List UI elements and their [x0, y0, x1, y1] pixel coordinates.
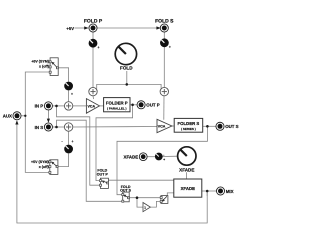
- wire A1b to summer S2: [163, 47, 165, 88]
- svg-text:x (off): x (off): [39, 165, 50, 169]
- arrow IN P normal into IN S: [47, 119, 50, 123]
- wire MIX normal to AUX: [17, 123, 207, 223]
- svg-text:+: +: [169, 45, 171, 49]
- wire IN S tap to FOLD OUT S: [57, 120, 123, 201]
- junction OUT P: [131, 104, 134, 107]
- wire CV bus: [97, 84, 161, 88]
- wire MIX junction down: [206, 191, 208, 196]
- knob FOLD: [115, 43, 136, 70]
- switch SW2 +5V SYM / off: [31, 160, 58, 175]
- summing node S3: [64, 102, 72, 110]
- op-amp buffer: [143, 203, 150, 212]
- wire S1 to VCA1 CV: [92, 96, 95, 99]
- wire buffer to SW3: [150, 201, 161, 207]
- block FOLDER P: [104, 98, 130, 112]
- wire A3 to summer S4: [68, 131, 70, 144]
- svg-text:x (off): x (off): [39, 64, 50, 68]
- svg-text:OUT P: OUT P: [146, 103, 159, 108]
- switch FOLD OUT S: [120, 185, 132, 202]
- jack MIX: [216, 187, 233, 195]
- wire A2 to summer S3: [68, 90, 70, 101]
- wire FOLD P jack to attenuator A1: [92, 32, 94, 39]
- svg-text:OUT S: OUT S: [120, 189, 132, 193]
- summing node S1: [89, 87, 97, 95]
- svg-text:+: +: [71, 92, 73, 96]
- wire SW3 to XFADE block: [167, 193, 174, 196]
- wire VCA1 to FOLDER P: [100, 105, 104, 107]
- block FOLDER S: [174, 118, 203, 132]
- wire +5V to FOLD P: [75, 27, 86, 29]
- attenuator A1b: [160, 38, 171, 49]
- wire A1 to summer S1: [92, 48, 94, 88]
- svg-text:XFADE: XFADE: [179, 168, 194, 173]
- svg-text:OUT P: OUT P: [97, 173, 109, 177]
- junction AUX bus: [24, 115, 26, 117]
- junction FOLD knob / CV bus: [126, 83, 129, 86]
- svg-text:+5V (SYM): +5V (SYM): [31, 160, 49, 164]
- wire FOLDER P to OUT P: [130, 104, 137, 106]
- wire S2 to VCA2 CV: [163, 96, 165, 120]
- svg-text:FOLD P: FOLD P: [84, 19, 103, 25]
- svg-text:IN S: IN S: [35, 125, 44, 130]
- svg-text:+: +: [98, 46, 100, 50]
- wire IN P tap to FOLD OUT P: [57, 106, 101, 185]
- junction OUT S: [206, 125, 209, 128]
- svg-text:MIX: MIX: [226, 189, 234, 194]
- wire IN P to summer S3: [52, 105, 64, 107]
- arrow +5V into FOLD P: [84, 26, 88, 29]
- jack FOLD S: [155, 19, 174, 32]
- wire A4 to XFADE knob: [163, 155, 178, 157]
- jack IN S: [35, 123, 53, 131]
- attenuator A1: [89, 39, 100, 50]
- wire FOLD knob stem: [126, 71, 128, 84]
- wire FOLD OUT P to XFADE block: [108, 179, 173, 181]
- wire AUX to bus: [21, 115, 25, 117]
- wire FOLDER S to OUT S: [203, 125, 216, 127]
- op-amp VCA1: [86, 99, 99, 114]
- summing node S4: [64, 123, 72, 131]
- jack OUT S: [216, 122, 239, 130]
- jack OUT P: [137, 101, 160, 109]
- svg-text:-: -: [163, 153, 164, 157]
- svg-text:( PARALLEL ): ( PARALLEL ): [107, 106, 126, 110]
- arrow into FOLD S: [156, 26, 160, 29]
- svg-text:OUT S: OUT S: [225, 124, 238, 129]
- wire XFADE block to MIX: [202, 190, 217, 192]
- wire S4 to VCA2: [73, 126, 157, 129]
- svg-text:-: -: [62, 140, 63, 144]
- svg-text:IN P: IN P: [35, 104, 44, 109]
- jack IN P: [35, 102, 53, 110]
- block XFADE: [174, 179, 202, 197]
- attenuator A3: [62, 140, 74, 154]
- wire SW2 to attenuator A3: [58, 153, 69, 166]
- jack FOLD P: [84, 19, 103, 32]
- junction MIX: [206, 190, 209, 193]
- svg-text:+: +: [72, 140, 74, 144]
- wire SW1 to attenuator A2: [58, 68, 68, 82]
- switch FOLD OUT P: [97, 169, 109, 189]
- junction IN S: [55, 126, 58, 129]
- wire OUT P tap to FOLD OUT P: [96, 105, 133, 181]
- svg-text:AUX: AUX: [3, 114, 12, 119]
- wire XFADE knob stem: [186, 172, 188, 179]
- wire FOLD OUT S to switch SW3: [129, 197, 161, 199]
- wire S3 to VCA1: [73, 105, 87, 107]
- wire junction to buffer: [137, 198, 143, 207]
- arrowheads: [15, 26, 161, 124]
- wire XFADE jack to attenuator A4: [147, 156, 155, 158]
- knob XFADE: [178, 147, 196, 173]
- svg-text:+5V: +5V: [66, 26, 74, 31]
- svg-text:XFADE: XFADE: [124, 155, 139, 160]
- svg-text:VCA: VCA: [88, 105, 96, 109]
- arrow MIX normal into AUX: [15, 120, 18, 124]
- svg-text:+: +: [163, 158, 165, 162]
- wire FOLD P to FOLD S: [97, 27, 160, 29]
- wire OUT S tap to FOLD OUT S: [117, 126, 207, 194]
- svg-text:FOLDER P: FOLDER P: [106, 101, 128, 106]
- switch SW3: [160, 196, 168, 204]
- svg-text:( SERIES ): ( SERIES ): [181, 127, 196, 131]
- svg-text:FOLD: FOLD: [120, 65, 133, 70]
- wire IN P normal to IN S: [47, 110, 49, 120]
- wire +5V bus: [25, 72, 50, 172]
- jack AUX: [3, 112, 21, 120]
- svg-text:XFADE: XFADE: [181, 186, 195, 191]
- svg-text:FOLD S: FOLD S: [155, 19, 174, 25]
- wire VCA2 to FOLDER S: [172, 125, 174, 127]
- junction FOLD OUT S output: [136, 196, 139, 199]
- attenuator A4: [155, 153, 165, 162]
- svg-text:VCA: VCA: [158, 125, 166, 129]
- svg-text:+5V (SYM): +5V (SYM): [31, 59, 49, 63]
- jack XFADE: [124, 153, 148, 161]
- switch SW1 +5V SYM / off: [31, 58, 58, 76]
- svg-text:FOLDER S: FOLDER S: [178, 121, 200, 126]
- junction IN P: [55, 105, 58, 108]
- summing node S2: [160, 87, 168, 95]
- wire FOLD S jack to attenuator A1b: [163, 32, 165, 39]
- op-amp VCA2: [157, 119, 172, 132]
- attenuator A2: [64, 82, 73, 96]
- wire IN S to summer S4: [53, 126, 65, 128]
